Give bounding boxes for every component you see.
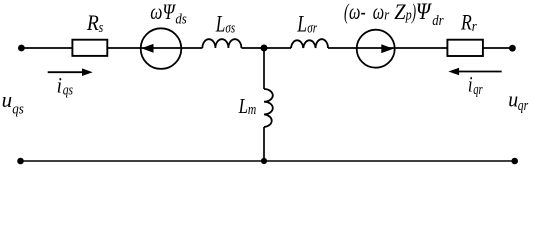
svg-text:Ψ: Ψ [416,0,432,24]
resistor Rs [72,40,107,56]
terminal rotor bottom [511,158,518,165]
current arrow i-qr [457,71,502,73]
svg-text:R: R [460,9,472,34]
svg-text:qr: qr [518,98,529,114]
svg-text:u: u [508,86,518,111]
svg-text:ω: ω [373,0,384,24]
svg-text:qr: qr [473,82,483,98]
terminal stator bottom [17,158,24,165]
wire vertical lower [263,127,265,161]
svg-text:dr: dr [432,13,443,29]
arrow inside U1 pointing left [141,44,153,53]
terminal stator top [18,45,25,52]
svg-text:Z: Z [394,0,406,24]
svg-text:-: - [361,0,366,24]
inductor Lm [264,89,273,127]
svg-text:u: u [2,87,13,112]
svg-text:L: L [296,12,307,37]
svg-text:qs: qs [63,83,73,99]
svg-text:m: m [248,102,257,118]
terminal rotor top [509,45,516,52]
dependent source U2 circle (slip emf) [357,30,395,68]
wire between Lsigma-s and Lsigma-r [241,47,291,49]
svg-text:R: R [86,10,99,35]
svg-text:ω: ω [349,0,360,24]
wire top rail left segment [21,47,202,49]
arrow inside U2 pointing right [381,44,393,53]
node junction bottom center [261,158,267,164]
node junction top center [261,45,268,52]
inductor Lsigma-s [202,39,241,48]
svg-text:i: i [468,72,473,97]
wire top rail right segment [328,47,512,49]
svg-text:i: i [57,73,62,98]
dependent source U1 circle (speed emf) [141,28,182,69]
svg-text:qs: qs [12,102,24,118]
inductor Lsigma-r [291,39,328,48]
svg-text:σr: σr [307,21,317,37]
svg-text:ds: ds [175,12,187,28]
current arrow i-qs [48,71,84,73]
svg-text:L: L [215,11,225,36]
wire vertical upper [263,48,265,89]
resistor Rr [447,40,483,56]
svg-text:σs: σs [225,21,235,37]
wire bottom rail [21,160,515,162]
svg-text:L: L [238,94,248,118]
svg-text:s: s [99,20,104,36]
svg-text:ωΨ: ωΨ [150,0,176,24]
svg-text:r: r [472,19,477,35]
svg-text:r: r [384,8,389,24]
